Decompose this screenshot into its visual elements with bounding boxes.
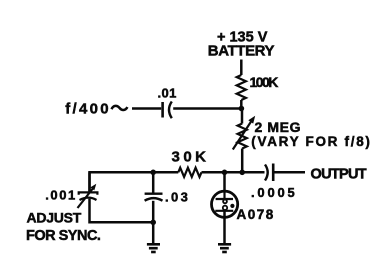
svg-text:ADJUST: ADJUST [27,210,82,226]
wire source to C1 [132,107,161,110]
svg-text:100K: 100K [250,74,279,90]
tube V1 top electrode bar [216,198,233,200]
svg-text:A078: A078 [237,207,275,222]
tube V1 bottom electrode bar [215,210,233,212]
svg-text:.001: .001 [45,187,77,202]
tube V1 bottom electrode ring [223,206,227,210]
node E junction dot [150,220,156,226]
ground G1 [147,243,160,246]
tube V1 envelope [212,191,238,217]
tube V1 top electrode ring [223,200,227,204]
wire tube to ground G2 [223,211,226,244]
capacitor C1 .01 straight plate [161,102,164,118]
capacitor C3 .03 straight plate [145,192,163,194]
svg-text:BATTERY: BATTERY [208,42,275,59]
wire R1 to node A [240,100,243,109]
capacitor C3 .03 curved plate [145,198,163,201]
wire node A to R2 2MEG [241,109,244,124]
svg-text:.03: .03 [165,189,190,204]
node B junction dot [239,170,245,176]
wire R3 to C4 [202,171,265,174]
wire C1 to node A [173,107,241,110]
resistor R3 30K [178,168,201,177]
wire C4 to output [275,171,306,174]
tube V1 gas dot [230,204,234,208]
svg-text:(VARY FOR f/8): (VARY FOR f/8) [251,134,371,149]
ground G2 [218,243,231,246]
svg-text:30K: 30K [172,149,210,166]
capacitor C2 .001 bottom plate [80,198,97,200]
capacitor C1 .01 curved plate [169,102,172,119]
capacitor C4 .0005 curved plate [265,165,268,181]
wire .03 branch bottom [152,201,155,223]
wire left corner to R3 30K [90,172,179,192]
node A junction dot [239,106,245,112]
svg-text:f/400: f/400 [65,101,111,118]
svg-text:.01: .01 [158,85,177,100]
node D junction dot [150,170,156,176]
svg-text:FOR SYNC.: FOR SYNC. [26,228,101,244]
capacitor C4 .0005 straight plate [272,164,275,182]
capacitor C2 .001 arrow [78,188,94,208]
wire node C to tube [223,172,226,191]
resistor R1 100K [237,75,246,100]
wire .03 branch top [152,172,155,192]
wire left branch upper [88,172,91,192]
source symbol ~ [112,106,128,110]
svg-text:OUTPUT: OUTPUT [311,166,367,182]
svg-text:2 MEG: 2 MEG [255,119,302,135]
potentiometer R2 arrow [233,121,252,149]
tube V1 top electrode lead [223,191,225,199]
wire battery lead [240,60,243,76]
svg-text:.0005: .0005 [251,185,298,200]
node C junction dot [222,170,228,176]
capacitor C2 .001 top plate [79,192,98,194]
potentiometer R2 2MEG zigzag [238,124,247,149]
wire node E to ground G1 [152,222,155,243]
wire R2 to node B [241,149,244,173]
wire left branch lower and bottom wire [90,199,154,223]
